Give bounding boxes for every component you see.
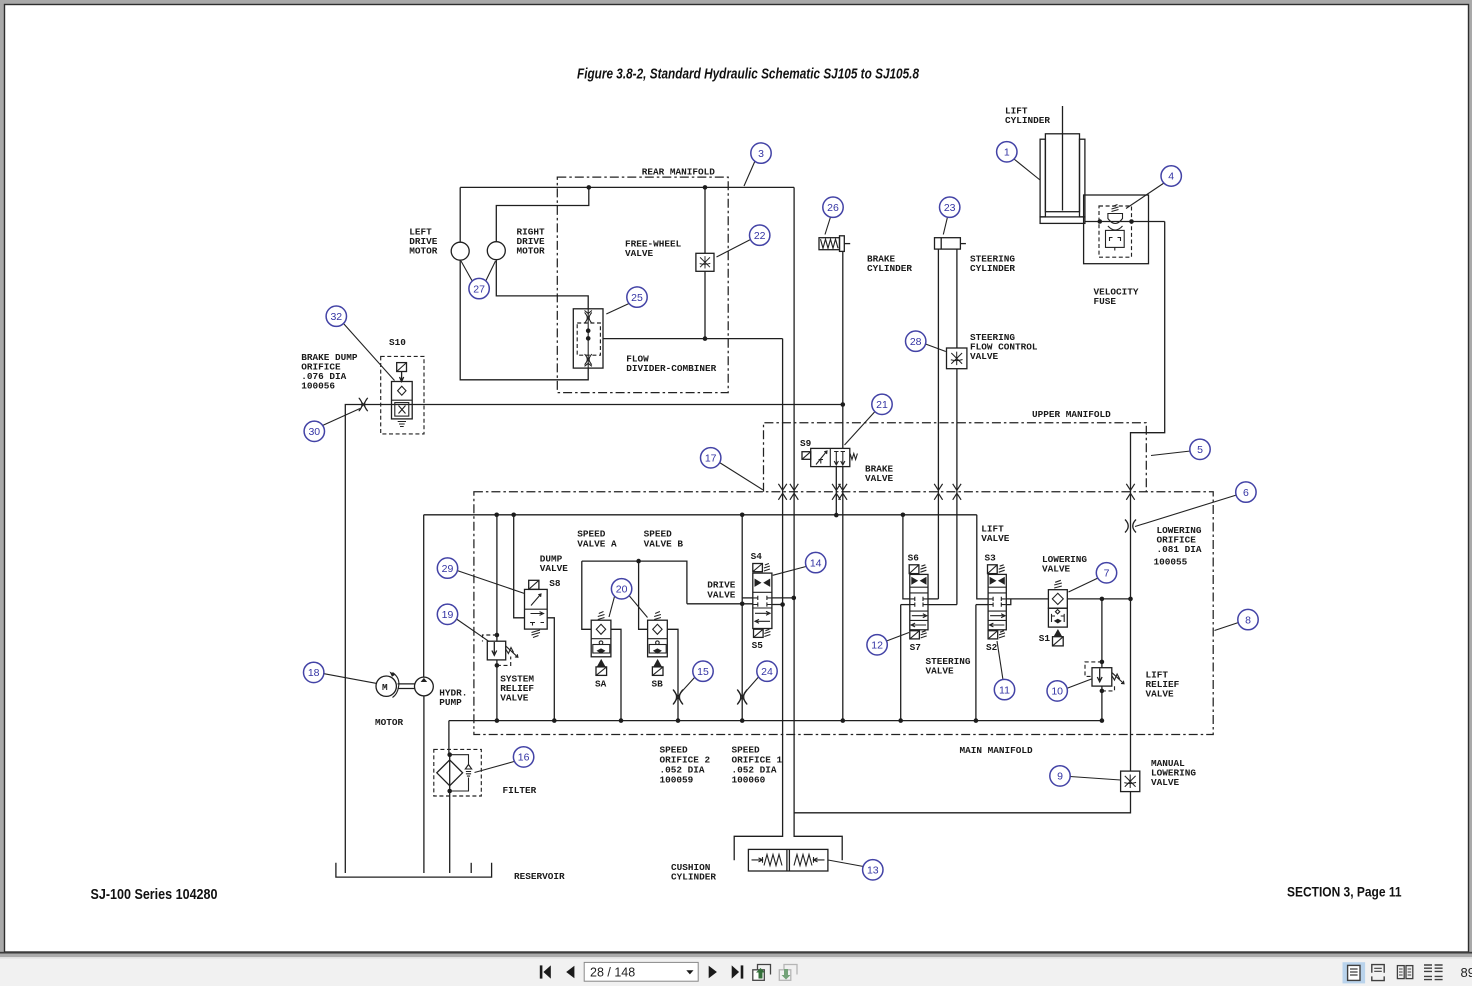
svg-text:REAR MANIFOLD: REAR MANIFOLD <box>642 166 716 177</box>
svg-text:19: 19 <box>442 609 454 621</box>
balloon 8 <box>1215 623 1239 631</box>
motor rotation arc <box>393 673 399 698</box>
pump pressure riser <box>423 515 425 677</box>
filter <box>434 749 482 796</box>
balloon 16 <box>475 762 515 773</box>
svg-text:22: 22 <box>754 230 766 242</box>
svg-text:VALVE: VALVE <box>625 248 654 259</box>
svg-text:10: 10 <box>1051 686 1063 698</box>
main manifold box <box>474 492 1213 735</box>
cushion cylinder <box>748 849 828 871</box>
svg-text:12: 12 <box>871 640 883 652</box>
drive valve right port wires <box>772 597 794 599</box>
wire: left vertical of pair (flow divider to cushion) <box>734 339 782 861</box>
wire: right vertical of pair (to cushion) <box>794 187 842 860</box>
speed valve SB <box>648 612 668 676</box>
balloon 27 <box>461 261 473 282</box>
toolbar next page button <box>709 966 717 978</box>
balloon 21 <box>845 412 876 446</box>
layout icon two-up <box>1397 966 1412 979</box>
lift valve left rails <box>977 515 988 599</box>
svg-text:9: 9 <box>1057 771 1063 783</box>
wire: left motor top riser <box>459 187 461 242</box>
steering cylinder <box>935 238 961 249</box>
SB outlet wire <box>667 629 678 720</box>
balloon 5 <box>1151 451 1191 456</box>
balloon 1 <box>1014 159 1040 180</box>
svg-text:8: 8 <box>1245 614 1251 626</box>
speed circuit feed wires <box>582 561 687 604</box>
svg-text:VALVE: VALVE <box>1042 563 1071 574</box>
toolbar next view icon (disabled) <box>779 965 797 981</box>
fuse outlet wire <box>1131 222 1165 600</box>
velocity fuse <box>1084 195 1149 264</box>
svg-text:VALVE: VALVE <box>1146 689 1175 700</box>
svg-text:.081 DIA: .081 DIA <box>1157 544 1202 555</box>
svg-text:S4: S4 <box>751 551 763 562</box>
svg-text:29: 29 <box>442 563 454 575</box>
svg-text:15: 15 <box>697 666 709 678</box>
svg-text:100060: 100060 <box>732 774 766 785</box>
svg-text:SA: SA <box>595 678 607 689</box>
balloon 7 <box>1069 578 1099 592</box>
svg-text:S5: S5 <box>752 640 764 651</box>
flow divider-combiner <box>573 309 603 368</box>
svg-text:VALVE: VALVE <box>500 692 529 703</box>
speed orifice 2 <box>673 690 683 705</box>
brake cylinder <box>819 238 840 250</box>
svg-text:4: 4 <box>1168 171 1174 183</box>
manual lowering valve drop <box>1130 599 1132 771</box>
svg-text:CYLINDER: CYLINDER <box>867 263 912 274</box>
svg-text:M: M <box>382 682 388 693</box>
svg-text:S7: S7 <box>910 642 921 653</box>
rear manifold box <box>557 177 728 393</box>
svg-text:SB: SB <box>652 678 664 689</box>
electric motor <box>376 676 396 696</box>
balloon 23 <box>943 217 947 235</box>
balloon 14 <box>773 567 806 576</box>
SA outlet wire <box>611 629 621 720</box>
steering flow control valve <box>947 348 967 369</box>
balloon 12 <box>887 633 910 642</box>
layout icon single page (active) <box>1343 962 1366 983</box>
svg-text:11: 11 <box>999 684 1010 696</box>
toolbar background <box>0 958 1472 986</box>
system relief valve <box>496 515 498 641</box>
S9 drain wires <box>835 467 837 515</box>
svg-text:5: 5 <box>1197 444 1203 456</box>
svg-text:S3: S3 <box>985 552 997 563</box>
toolbar prev page button <box>566 966 574 978</box>
svg-text:S9: S9 <box>800 438 812 449</box>
svg-text:CYLINDER: CYLINDER <box>671 871 716 882</box>
svg-text:17: 17 <box>705 453 717 465</box>
filter return to tank <box>449 791 451 873</box>
svg-text:28: 28 <box>910 336 922 348</box>
svg-text:20: 20 <box>616 584 628 596</box>
svg-text:PUMP: PUMP <box>439 697 462 708</box>
svg-text:100055: 100055 <box>1154 556 1188 567</box>
svg-text:13: 13 <box>867 865 879 877</box>
wire: main top line <box>460 186 794 188</box>
wire: left motor bottom loop <box>460 260 588 380</box>
svg-text:VALVE A: VALVE A <box>577 538 617 549</box>
svg-text:MOTOR: MOTOR <box>409 245 438 256</box>
svg-text:FUSE: FUSE <box>1094 296 1117 307</box>
balloon 32 <box>344 324 395 381</box>
hydraulic pump <box>415 677 434 696</box>
fuse lower box <box>1106 230 1125 247</box>
balloon 29 <box>457 571 525 594</box>
fuse spring <box>1112 205 1119 212</box>
svg-text:VALVE: VALVE <box>970 351 999 362</box>
junction <box>587 185 592 190</box>
toolbar previous view icon <box>753 965 771 981</box>
balloon 25 <box>606 304 629 315</box>
inner supply line <box>424 514 977 516</box>
svg-text:VALVE: VALVE <box>981 533 1010 544</box>
svg-text:24: 24 <box>761 666 773 678</box>
balloon 11 <box>997 641 1003 680</box>
svg-text:S2: S2 <box>986 642 998 653</box>
svg-text:26: 26 <box>827 202 839 214</box>
toolbar page number box <box>584 962 698 981</box>
svg-text:VALVE: VALVE <box>865 473 894 484</box>
svg-text:UPPER MANIFOLD: UPPER MANIFOLD <box>1032 409 1111 420</box>
speed orifice 1 <box>737 690 747 705</box>
wire: right motor bottom to divider <box>496 260 588 309</box>
svg-text:100059: 100059 <box>660 774 694 785</box>
svg-text:VALVE: VALVE <box>707 590 736 601</box>
free-wheel valve <box>696 253 714 271</box>
bottom gray strip <box>0 952 1472 954</box>
wire: right motor top link <box>496 187 589 242</box>
balloon 22 <box>717 240 751 258</box>
reservoir inlet stub <box>470 863 472 873</box>
left drive motor <box>451 242 469 260</box>
balloon 9 <box>1070 777 1121 781</box>
svg-text:Figure 3.8-2, Standard Hydraul: Figure 3.8-2, Standard Hydraulic Schemat… <box>577 66 920 83</box>
lowering valve <box>1054 580 1062 588</box>
reservoir <box>336 863 492 877</box>
svg-text:FILTER: FILTER <box>503 785 537 796</box>
svg-text:CYLINDER: CYLINDER <box>1005 115 1050 126</box>
balloon 15 <box>680 677 695 694</box>
svg-text:CYLINDER: CYLINDER <box>970 263 1015 274</box>
svg-text:14: 14 <box>810 557 822 569</box>
steering valve right port wires <box>928 598 938 600</box>
balloon 17 <box>720 463 763 490</box>
speed valve SA <box>591 612 611 676</box>
svg-text:89: 89 <box>1461 965 1472 980</box>
svg-text:27: 27 <box>473 283 485 295</box>
svg-text:VALVE B: VALVE B <box>644 538 684 549</box>
balloon 13 <box>828 860 864 867</box>
balloon 4 <box>1126 183 1164 209</box>
pump suction wire <box>423 696 425 873</box>
svg-text:6: 6 <box>1243 487 1249 499</box>
balloon 24 <box>744 677 759 694</box>
balloon 30 <box>323 409 361 426</box>
lift valve right port wires <box>1006 598 1048 600</box>
balloon 28 <box>926 344 946 352</box>
balloon 3 <box>744 161 755 186</box>
svg-text:RESERVOIR: RESERVOIR <box>514 871 565 882</box>
svg-text:MOTOR: MOTOR <box>517 245 546 256</box>
lowering orifice pinch <box>1125 520 1136 533</box>
brake dump orifice <box>359 398 368 412</box>
manual lowering valve <box>1121 771 1140 792</box>
svg-text:28 / 148: 28 / 148 <box>590 966 635 980</box>
svg-text:S6: S6 <box>908 552 920 563</box>
fuse check arcs <box>1108 214 1123 224</box>
motor shaft <box>398 683 415 685</box>
svg-text:25: 25 <box>631 292 643 304</box>
bus drop to filter <box>448 721 450 755</box>
svg-text:S8: S8 <box>549 578 561 589</box>
balloon 20 <box>609 597 615 618</box>
balloon 10 <box>1067 679 1092 689</box>
svg-text:S1: S1 <box>1039 633 1051 644</box>
lowering valve outlet wire <box>1067 598 1130 600</box>
svg-text:MAIN MANIFOLD: MAIN MANIFOLD <box>960 745 1034 756</box>
layout icon continuous <box>1372 965 1384 981</box>
manual lowering return wire <box>794 792 1131 813</box>
svg-text:18: 18 <box>308 667 320 679</box>
balloon 6 <box>1135 495 1237 527</box>
brake dump line <box>345 405 843 874</box>
svg-text:SJ-100 Series 104280: SJ-100 Series 104280 <box>91 887 218 903</box>
balloon 19 <box>457 619 490 642</box>
balloon 26 <box>825 217 831 235</box>
svg-text:23: 23 <box>944 202 956 214</box>
svg-text:VALVE: VALVE <box>540 563 569 574</box>
svg-text:1: 1 <box>1004 147 1010 159</box>
layout icon two-up continuous <box>1424 965 1443 980</box>
balloon 18 <box>324 674 376 684</box>
bottom bus <box>449 720 1102 722</box>
svg-text:3: 3 <box>758 148 764 160</box>
brake cylinder drop wire <box>842 251 844 448</box>
free-wheel valve vertical <box>704 187 706 253</box>
lift cylinder <box>1062 106 1064 211</box>
manifold crossing arrows <box>778 484 786 500</box>
svg-text:30: 30 <box>308 426 320 438</box>
svg-text:SECTION 3, Page 11: SECTION 3, Page 11 <box>1287 884 1402 900</box>
svg-text:7: 7 <box>1104 568 1110 580</box>
upper manifold box <box>764 423 1147 492</box>
right drive motor <box>487 242 505 260</box>
svg-text:DIVIDER-COMBINER: DIVIDER-COMBINER <box>626 363 716 374</box>
toolbar first page button <box>540 965 543 978</box>
svg-text:VALVE: VALVE <box>926 665 955 676</box>
wire: flow divider right line <box>603 338 783 340</box>
svg-text:21: 21 <box>876 399 888 411</box>
svg-text:16: 16 <box>518 752 530 764</box>
svg-text:VALVE: VALVE <box>1151 777 1180 788</box>
steering cylinder wires <box>937 249 939 599</box>
svg-text:MOTOR: MOTOR <box>375 717 404 728</box>
svg-text:100056: 100056 <box>301 380 335 391</box>
S9 spring W <box>850 454 857 460</box>
fuse line <box>1085 221 1165 223</box>
lift relief valve <box>1092 668 1112 686</box>
steering valve left rails <box>903 515 910 599</box>
toolbar last page button <box>732 965 739 978</box>
lift relief riser <box>1101 599 1103 668</box>
svg-text:32: 32 <box>330 311 342 323</box>
svg-text:S10: S10 <box>389 337 406 348</box>
